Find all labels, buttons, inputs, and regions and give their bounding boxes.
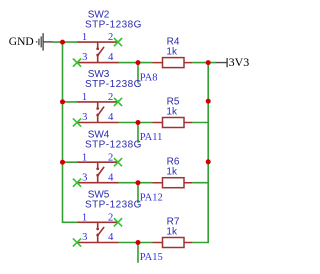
svg-text:PA15: PA15 [140,252,163,263]
svg-text:PA12: PA12 [140,192,163,203]
svg-text:STP-1238G: STP-1238G [85,139,142,150]
svg-text:2: 2 [108,152,113,163]
svg-text:2: 2 [108,92,113,103]
svg-text:GND: GND [9,36,34,48]
svg-text:1: 1 [82,152,87,163]
svg-text:3: 3 [82,112,87,123]
svg-text:PA11: PA11 [140,132,163,143]
svg-text:2: 2 [108,32,113,43]
svg-text:3: 3 [82,232,87,243]
svg-text:1: 1 [82,32,87,43]
svg-text:STP-1238G: STP-1238G [85,19,142,30]
svg-text:3V3: 3V3 [229,55,250,69]
svg-text:2: 2 [108,212,113,223]
svg-text:4: 4 [108,112,114,123]
svg-text:1: 1 [82,92,87,103]
svg-text:3: 3 [82,172,87,183]
svg-text:PA8: PA8 [140,72,158,83]
svg-text:STP-1238G: STP-1238G [85,79,142,90]
svg-text:4: 4 [108,52,114,63]
svg-text:1: 1 [82,212,87,223]
svg-text:1k: 1k [166,106,178,117]
svg-text:3: 3 [82,52,87,63]
svg-text:1k: 1k [166,167,178,178]
svg-text:1k: 1k [166,46,178,57]
svg-text:4: 4 [108,232,114,243]
svg-text:STP-1238G: STP-1238G [85,200,142,211]
svg-text:1k: 1k [166,226,178,237]
svg-text:4: 4 [108,172,114,183]
